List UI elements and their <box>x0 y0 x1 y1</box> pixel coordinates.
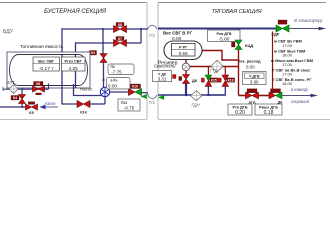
junction dot <box>102 79 104 81</box>
flow arrow green <box>141 94 147 98</box>
instrument box Ргаз СВГ <box>62 57 86 72</box>
svg-text:в Рн: в Рн <box>111 79 118 83</box>
svg-text:П12: П12 <box>121 101 127 105</box>
svg-text:Ргаз СВГ: Ргаз СВГ <box>65 58 83 63</box>
svg-text:К13: К13 <box>228 79 234 83</box>
wire tank outlet x62 below <box>62 88 77 104</box>
svg-text:Ргв ДГБ: Ргв ДГБ <box>232 106 247 110</box>
svg-text:3.31: 3.31 <box>158 77 167 82</box>
wire tank outlet x75.5 to pump suction <box>74 84 102 96</box>
wire traction top manifold <box>158 28 276 30</box>
combustion chamber arrow <box>282 87 318 104</box>
receiver <box>164 41 202 60</box>
booster section frame <box>0 3 147 120</box>
wire K8 right to merge <box>127 28 142 30</box>
svg-text:17.00: 17.00 <box>282 72 293 77</box>
atmosphere vent arrow <box>289 18 326 30</box>
valve K13 <box>218 75 234 86</box>
hop arc 7/2 <box>148 25 157 29</box>
wire ILT line y89 <box>3 88 49 90</box>
svg-text:-7.75: -7.75 <box>111 69 122 74</box>
wire pump bottom leg <box>104 97 106 105</box>
svg-text:-0.75: -0.75 <box>124 106 135 111</box>
svg-text:Вес СВГ: Вес СВГ <box>38 58 55 63</box>
flow diamond ILT <box>9 85 18 94</box>
pipe KCD column down <box>238 50 240 96</box>
svg-text:0.20: 0.20 <box>235 110 245 116</box>
junction dot <box>207 94 209 96</box>
pipe bottom red line <box>239 95 246 97</box>
mixer <box>182 63 190 71</box>
wire K3 to pump <box>103 63 105 89</box>
svg-text:сгорания: сгорания <box>291 99 310 104</box>
svg-text:0.00: 0.00 <box>108 84 117 89</box>
svg-text:Смеситель: Смеситель <box>154 64 176 69</box>
svg-text:К8: К8 <box>118 23 122 27</box>
wire second manifold y43 <box>76 42 114 44</box>
instrument box Рнв ДГВ <box>208 30 241 42</box>
valve K10 <box>129 84 142 96</box>
svg-text:К7: К7 <box>118 37 122 41</box>
valve K3 <box>90 51 108 63</box>
svg-text:17.00: 17.00 <box>282 43 293 48</box>
svg-text:ДК: ДК <box>192 78 198 83</box>
svg-text:Р РГ: Р РГ <box>179 46 188 50</box>
flow diamond GDN <box>191 91 202 101</box>
svg-text:БУСТЕРНАЯ СЕКЦИЯ: БУСТЕРНАЯ СЕКЦИЯ <box>44 9 107 15</box>
instrument box П12 <box>118 99 140 111</box>
svg-text:0.58: 0.58 <box>179 51 188 56</box>
pipe stubs to K15 K13 <box>207 67 209 76</box>
instrument box Ч ДГВ <box>243 72 267 85</box>
svg-text:В атмосферу: В атмосферу <box>294 18 323 23</box>
svg-text:0.18: 0.18 <box>264 110 274 116</box>
wire to section gap <box>141 28 148 30</box>
svg-text:Рнв ДГВ: Рнв ДГВ <box>217 32 232 36</box>
pipe mixer outlet <box>190 66 239 68</box>
valve K14 <box>77 101 90 115</box>
hop arc 7/1 <box>148 93 157 98</box>
readout list right <box>271 39 314 86</box>
svg-text:17.00: 17.00 <box>282 62 293 67</box>
wire K15 K13 return loop <box>208 86 225 95</box>
wire K6 riser to tank <box>48 84 50 90</box>
valve DK out <box>269 89 283 105</box>
valve K8 <box>114 23 127 33</box>
junction on y29 <box>102 28 104 30</box>
wire top manifold y29 <box>62 28 114 30</box>
valve DK mixer <box>173 75 198 84</box>
svg-text:Насос: Насос <box>80 87 93 92</box>
wire K10 to connector 7/1 <box>142 92 149 95</box>
tank wire x75.5 inside <box>75 54 77 88</box>
junction on y43 <box>102 42 104 44</box>
wire end cap <box>2 87 4 91</box>
wire diamond to K4 <box>21 89 23 95</box>
instrument box Ргв ДГБ <box>228 104 252 116</box>
traction section frame <box>158 3 330 120</box>
wire KCD drop <box>238 29 240 40</box>
valve KCD <box>232 40 254 50</box>
valve K5 <box>26 102 38 115</box>
svg-text:К6: К6 <box>36 82 40 86</box>
instrument box Рвых ДГБ <box>255 104 282 116</box>
wire pump discharge <box>110 91 129 93</box>
svg-text:БДУ: БДУ <box>3 29 14 35</box>
svg-text:ГТД: ГТД <box>210 69 218 74</box>
fuel tank inner stadium <box>10 55 88 86</box>
svg-text:Вес СВГ В РГ: Вес СВГ В РГ <box>163 31 193 36</box>
svg-text:К5: К5 <box>29 111 33 115</box>
fuel tank outer rect <box>7 52 90 88</box>
junction dot <box>21 88 23 90</box>
wire traction bottom main <box>158 94 225 96</box>
svg-text:7/1: 7/1 <box>149 100 156 105</box>
pipe receiver to mixer <box>185 60 187 64</box>
valve K7 <box>114 37 127 47</box>
pump <box>100 87 109 96</box>
svg-text:3.90: 3.90 <box>250 80 259 85</box>
junction <box>21 106 23 108</box>
wire merge vertical <box>140 28 142 43</box>
svg-text:КЦД: КЦД <box>245 43 253 48</box>
wire DK drop thick <box>185 84 187 96</box>
svg-text:4.25: 4.25 <box>69 66 79 72</box>
pipe mixer to DK valve <box>185 71 187 75</box>
svg-text:Тек. расход: Тек. расход <box>238 59 261 64</box>
instrument box Р РГ <box>172 44 196 57</box>
svg-text:Рвых ДГБ: Рвых ДГБ <box>259 106 278 110</box>
instrument box Рн <box>107 78 131 90</box>
wire left drop x62 into tank <box>61 28 63 88</box>
valve K6 <box>33 82 45 96</box>
wire nitrogen line left <box>0 106 26 108</box>
svg-text:0.00: 0.00 <box>246 65 255 70</box>
flow arrow green traction <box>159 95 165 99</box>
svg-text:-5.00: -5.00 <box>219 36 230 42</box>
svg-text:ТЯГОВАЯ СЕКЦИЯ: ТЯГОВАЯ СЕКЦИЯ <box>211 9 261 15</box>
svg-text:Ч ДГВ: Ч ДГВ <box>249 74 260 78</box>
svg-text:18.00: 18.00 <box>282 52 293 57</box>
svg-text:К15: К15 <box>211 79 217 83</box>
valve KDR <box>272 20 290 37</box>
svg-text:К3: К3 <box>91 51 95 55</box>
wire K4 to K5 line <box>21 104 23 108</box>
valve K15 <box>201 75 217 86</box>
wire K14 to pump leg <box>90 103 105 105</box>
wire left drop x75.5 into tank <box>75 42 77 88</box>
instrument box Вес СВГ <box>33 57 60 72</box>
svg-text:К4: К4 <box>13 96 17 100</box>
instrument box P3 <box>108 64 134 75</box>
svg-text:7/2: 7/2 <box>149 33 156 38</box>
svg-text:Т СВГ Вх.В смес. РГ: Т СВГ Вх.В смес. РГ <box>272 77 312 82</box>
pipe receiver to KCD column <box>202 51 239 61</box>
svg-text:К14: К14 <box>80 111 87 115</box>
svg-text:м Масл.зам.Вых ГВМ: м Масл.зам.Вых ГВМ <box>271 58 314 63</box>
tank wire x62 inside <box>61 54 63 88</box>
svg-text:К10: К10 <box>132 85 138 89</box>
svg-text:-0.17 т: -0.17 т <box>39 66 54 72</box>
valve DGB <box>246 89 259 105</box>
instrument box Т ДК <box>153 71 172 82</box>
pipe drain vertical to DK <box>272 32 274 94</box>
svg-text:в камеру: в камеру <box>291 87 309 92</box>
svg-text:ГДН: ГДН <box>192 102 201 107</box>
junction dot <box>185 94 187 96</box>
svg-text:Азот: Азот <box>44 101 56 106</box>
junction dot <box>140 28 142 30</box>
svg-text:ИЛТ: ИЛТ <box>6 80 15 85</box>
svg-text:18.00: 18.00 <box>282 81 293 86</box>
flow diamond GTD <box>211 60 223 72</box>
svg-text:Топливная ёмкость: Топливная ёмкость <box>20 44 63 50</box>
valve K4 <box>11 95 26 104</box>
wire K7 right to merge <box>127 42 142 44</box>
wire K3 branch vertical <box>102 29 104 54</box>
nitrogen inlet arrow <box>40 101 59 110</box>
